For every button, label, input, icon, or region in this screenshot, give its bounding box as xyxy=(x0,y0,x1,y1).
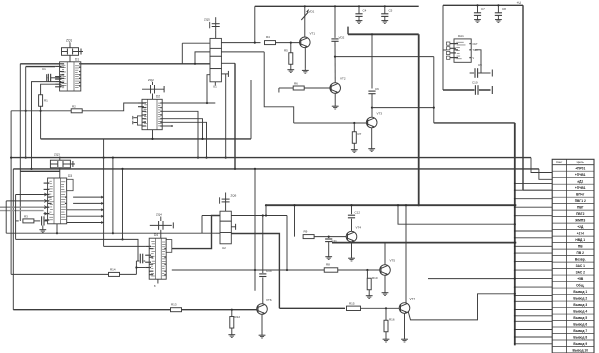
junction x255 base xyxy=(254,269,256,271)
wire y171.3 stub xyxy=(20,170,60,172)
wire stack pin r2 bracket xyxy=(221,51,264,53)
transistor VT2 xyxy=(330,83,341,94)
svg-text:Вывод 10: Вывод 10 xyxy=(572,348,588,352)
wire stack l1 riser xyxy=(181,43,183,64)
ground VT4 xyxy=(348,256,355,261)
transistor VT4 xyxy=(346,231,357,242)
ground R12 xyxy=(228,333,235,338)
stack U2 section 3 xyxy=(220,233,231,244)
wire R6 hook xyxy=(279,88,293,93)
wire R10 gnd xyxy=(368,290,370,294)
svg-text:D2: D2 xyxy=(156,95,160,99)
svg-text:ZQ6: ZQ6 xyxy=(231,194,237,198)
wire U2 left pin1 xyxy=(202,215,220,217)
svg-text:ZQ5: ZQ5 xyxy=(204,18,210,22)
resistor R6 xyxy=(293,86,304,90)
svg-text:+2 Н: +2 Н xyxy=(577,232,585,236)
resistor R10 xyxy=(367,278,371,290)
IC D4 xyxy=(145,238,166,279)
resistor R2 xyxy=(71,109,82,113)
junction R1 bus xyxy=(40,110,42,112)
resistor R9 xyxy=(303,235,314,239)
resistor R1 xyxy=(39,95,43,107)
svg-text:+5В: +5В xyxy=(577,277,584,281)
terminal y90 xyxy=(491,86,493,94)
vertical x112.9 xyxy=(112,157,114,235)
junction C8 xyxy=(497,4,499,6)
svg-text:Вывод 9: Вывод 9 xyxy=(573,342,587,346)
wire VT4 emitter xyxy=(351,242,353,256)
svg-text:ZQ3: ZQ3 xyxy=(54,153,60,157)
svg-text:Вывод 1: Вывод 1 xyxy=(573,290,587,294)
crystal ZQ6 xyxy=(220,193,230,212)
wire stack bottom stub xyxy=(214,82,216,86)
svg-text:ВПчт: ВПчт xyxy=(576,193,585,197)
wire x255 riser xyxy=(254,169,256,291)
svg-text:+ПР01: +ПР01 xyxy=(575,167,585,171)
svg-text:C14: C14 xyxy=(266,269,272,273)
junction base divider xyxy=(290,42,292,44)
svg-text:VT2: VT2 xyxy=(340,77,346,81)
wire R12 top xyxy=(231,310,233,317)
capacitor C1 xyxy=(47,74,60,82)
svg-text:+U: +U xyxy=(517,1,522,5)
ground VT5 xyxy=(382,291,389,296)
wire bus C left drop xyxy=(12,169,14,310)
capacitor C13 xyxy=(136,254,145,264)
wire bold y308.3 xyxy=(279,307,345,309)
wire D4 in y267.5 xyxy=(136,267,145,269)
wire right block left rail xyxy=(442,5,444,90)
junction rail D xyxy=(418,204,420,206)
wire stack pin r1 to R4 xyxy=(221,42,260,44)
svg-text:R3: R3 xyxy=(24,214,28,218)
svg-text:C12: C12 xyxy=(355,211,361,215)
IC DA1 xyxy=(450,39,471,62)
wire DA1 tun to C9 xyxy=(475,50,481,68)
svg-text:ZQ1: ZQ1 xyxy=(66,39,72,43)
junction x255 top xyxy=(254,168,256,170)
capacitor C7 xyxy=(474,5,481,22)
ground R10 xyxy=(366,294,373,299)
vertical x225.7 xyxy=(225,74,227,159)
svg-text:+2Д: +2Д xyxy=(577,225,584,229)
svg-text:D3: D3 xyxy=(68,174,72,178)
svg-text:+ПЧВ1: +ПЧВ1 xyxy=(575,186,586,190)
stack U1 section 2 xyxy=(210,48,221,56)
capacitor C8 xyxy=(495,5,502,22)
svg-text:R9: R9 xyxy=(304,230,308,234)
wire ZQ1 stem to D1 xyxy=(69,55,71,62)
junction l4 y103 xyxy=(206,102,208,104)
svg-text:OUT: OUT xyxy=(473,43,479,46)
wire bus B y157.6 xyxy=(11,157,531,159)
junction C6 top xyxy=(371,33,373,35)
wire x294.5 drop xyxy=(294,205,296,236)
corner x103.6 y246.4 xyxy=(103,245,105,247)
svg-text:C10: C10 xyxy=(472,81,478,85)
wire VT5 base feed xyxy=(172,269,338,271)
svg-text:Вывод 4: Вывод 4 xyxy=(573,309,587,313)
wire stack pin r3 bold xyxy=(221,63,235,169)
wire VT3 emitter xyxy=(371,128,373,147)
junction C6 out xyxy=(371,107,373,109)
svg-text:R10: R10 xyxy=(372,276,378,280)
svg-text:R16: R16 xyxy=(389,318,395,322)
capacitor C2 xyxy=(41,216,48,225)
resistor R4 xyxy=(265,41,276,45)
wire R16 top xyxy=(385,308,387,320)
wire VT5 collector xyxy=(384,243,386,265)
svg-text:Вывод 2: Вывод 2 xyxy=(573,296,587,300)
wire bus E y242.6 xyxy=(332,242,516,244)
transistor VT6 xyxy=(257,304,268,315)
wire stack pin l1 xyxy=(182,42,210,44)
wire R10 top xyxy=(366,270,368,278)
wire top supply rail xyxy=(255,5,419,7)
wire D1 input xyxy=(26,66,55,68)
stack U1 section 4 xyxy=(210,69,221,82)
IC D2 internal text xyxy=(144,103,162,127)
junction R12 tap xyxy=(231,309,233,311)
resistor R14 xyxy=(109,272,120,276)
wire D1 left vert xyxy=(25,67,27,159)
wire y246.4 to D4 xyxy=(104,245,146,247)
wire y107.6 to right xyxy=(372,107,435,109)
wire U2 left pin1 drop xyxy=(201,216,203,234)
ground C2 xyxy=(39,228,46,233)
wire D1 pin to R1 xyxy=(41,84,56,95)
IC D4 internal text xyxy=(151,241,166,276)
IC D1 xyxy=(55,62,81,91)
svg-text:C4: C4 xyxy=(363,9,367,13)
junction VT6 riser xyxy=(262,214,264,216)
wire R8 to VT5 xyxy=(338,269,380,271)
svg-text:DA1: DA1 xyxy=(458,34,464,38)
junction R16 xyxy=(385,307,387,309)
svg-text:R6: R6 xyxy=(294,82,298,86)
junction C12 bus D xyxy=(350,204,352,206)
svg-text:C9: C9 xyxy=(478,63,482,67)
wire ZQ3 stem xyxy=(59,168,61,178)
wire bus B tap xyxy=(531,158,552,173)
resistor R12 xyxy=(230,317,234,329)
capacitor C12 xyxy=(348,205,355,219)
wire D4 bottom stub xyxy=(157,279,159,283)
svg-text:ЗАС 1: ЗАС 1 xyxy=(576,264,586,268)
wire D2 bottom stub xyxy=(152,130,154,139)
transistor VT1 xyxy=(300,37,311,48)
resistor R13 xyxy=(171,308,182,312)
wire y274.4 xyxy=(11,273,136,275)
wire bus B left drop xyxy=(10,111,12,275)
svg-text:Вывод 7: Вывод 7 xyxy=(573,329,587,333)
svg-text:C8: C8 xyxy=(502,7,506,11)
wire U2 right pin2 xyxy=(231,224,235,230)
svg-text:VD2: VD2 xyxy=(339,36,345,40)
wire bracket drop x264.2 xyxy=(264,52,294,123)
junction bus C rail xyxy=(515,168,517,170)
resistor R5 xyxy=(289,53,293,65)
IC DA1 pin ladder xyxy=(443,42,450,59)
wire y233.2 xyxy=(6,232,216,234)
crystal ZQ5 xyxy=(210,17,220,38)
wire VT4 collector xyxy=(351,218,353,232)
junction x294.5 bus D xyxy=(293,204,295,206)
wire stack pin r4 xyxy=(221,71,228,77)
capacitor C10 xyxy=(475,85,479,95)
junction R10 xyxy=(366,269,368,271)
svg-text:±Д1: ±Д1 xyxy=(577,180,583,184)
svg-text:НВД 1: НВД 1 xyxy=(575,238,585,242)
svg-text:VD1: VD1 xyxy=(309,10,315,14)
svg-text:ЖМПЗ: ЖМПЗ xyxy=(574,219,585,223)
wire D3 bottom stub xyxy=(56,224,58,233)
crystal ZQ4 xyxy=(150,217,174,230)
svg-text:Общ.: Общ. xyxy=(576,283,584,287)
wire D3 in5 xyxy=(16,220,19,222)
wire R4 to VT1 xyxy=(276,42,300,44)
wire ZQ4 stem xyxy=(160,230,162,238)
svg-text:R4: R4 xyxy=(266,35,270,39)
svg-text:ПВГ1 2: ПВГ1 2 xyxy=(575,199,586,203)
wire D2 pin risers xyxy=(162,119,207,159)
wire y90 feed xyxy=(443,89,491,91)
svg-text:VT1: VT1 xyxy=(310,32,316,36)
wire riser x287 xyxy=(286,216,288,271)
crystal ZQ1 xyxy=(62,43,84,56)
wire R12 gnd xyxy=(231,328,233,333)
wire R3 to C2 xyxy=(34,220,40,222)
junction bus B rail xyxy=(515,157,517,159)
wire connector pin stubs xyxy=(514,183,552,345)
svg-text:D4: D4 xyxy=(154,233,158,237)
junction cap C4 xyxy=(358,5,360,7)
ground VT3 xyxy=(368,147,375,152)
wire D3 in4 xyxy=(0,210,44,212)
wire rail x523 xyxy=(522,5,524,190)
ground VT2 xyxy=(332,104,339,109)
junction y224.2 xyxy=(514,223,516,225)
wire bus C tap xyxy=(539,169,552,179)
wire bold rail x418.7 xyxy=(418,34,420,205)
ground VT6 xyxy=(259,333,266,338)
wire R15 to VT7 xyxy=(361,307,400,309)
wire D2 pin y111 riser xyxy=(162,111,199,158)
wire U2 right pin1 xyxy=(231,215,287,217)
svg-text:R5: R5 xyxy=(284,49,288,53)
wire VT5 emitter xyxy=(384,275,386,290)
wire y239.4 xyxy=(16,239,138,261)
ground R5 xyxy=(287,68,294,73)
wire bus y138.9 right corner xyxy=(250,80,252,139)
svg-text:R13: R13 xyxy=(171,303,177,307)
junction rail C3 xyxy=(334,5,336,7)
resistor R7 xyxy=(352,132,356,144)
wire C6 chain xyxy=(371,34,373,88)
svg-text:D1: D1 xyxy=(75,58,79,62)
svg-text:Возвр.: Возвр. xyxy=(575,257,586,261)
svg-text:ПВГ: ПВГ xyxy=(577,206,584,210)
svg-text:R15: R15 xyxy=(349,301,355,305)
junction y278.6 xyxy=(514,278,516,280)
crystal ZQ2 xyxy=(142,82,164,94)
junction D3 bottom xyxy=(56,232,58,234)
vertical x15.6 xyxy=(15,195,17,240)
wire top-right supply xyxy=(443,4,523,6)
wire rail x523 stub xyxy=(523,189,552,191)
junction stack bus C xyxy=(234,168,236,170)
ground VT1 xyxy=(302,68,309,73)
svg-text:VT6: VT6 xyxy=(266,298,272,302)
wire D2 out long xyxy=(162,102,215,104)
wire VT1 collector xyxy=(304,22,306,37)
wire R9 to VT4 xyxy=(314,236,346,238)
wire bottom bus y309.7 xyxy=(13,309,256,311)
wire D3 in3 xyxy=(0,206,44,208)
svg-text:Вывод 8: Вывод 8 xyxy=(573,335,587,339)
capacitor C4 xyxy=(355,6,362,23)
svg-text:C1: C1 xyxy=(42,67,46,71)
IC D3 internal text xyxy=(49,181,66,220)
diode VD1 xyxy=(301,6,309,22)
wire U2 left pin3 xyxy=(216,232,220,234)
resistor R16 xyxy=(384,320,388,332)
wire divider xyxy=(290,43,292,53)
transistor VT5 xyxy=(380,265,391,276)
wire stack pin l2 xyxy=(195,52,210,64)
svg-text:+ПЧВ1: +ПЧВ1 xyxy=(575,173,586,177)
junction VT7 out rail xyxy=(514,293,516,295)
wire R1 to bus xyxy=(40,106,42,139)
wire VT7 collector riser xyxy=(405,205,407,303)
IC DA1 internal text xyxy=(456,42,465,59)
junction x136.4 xyxy=(135,266,137,268)
IC D2 sub-box xyxy=(133,116,142,125)
IC D3 sub-box xyxy=(67,179,73,190)
wire riser x266 to bus D xyxy=(265,205,267,215)
crystal ZQ3 xyxy=(50,157,75,168)
wire y224.2 xyxy=(398,205,515,224)
wire bus A left corner xyxy=(19,64,21,221)
wire VT6 emitter xyxy=(261,314,263,333)
svg-text:Вывод 6: Вывод 6 xyxy=(573,322,587,326)
resistor R15 xyxy=(347,306,361,310)
wire D3 in2 xyxy=(6,200,43,202)
junction bus D rail xyxy=(514,204,516,206)
wire D4 out bold to U2 xyxy=(172,216,220,249)
transistor VT3 xyxy=(366,117,377,128)
wire y110.8 xyxy=(11,110,120,112)
IC D2 xyxy=(138,99,162,129)
junction C11 base xyxy=(328,236,330,238)
svg-text:R1: R1 xyxy=(44,99,48,103)
wire bus D y205.2 xyxy=(266,204,516,206)
svg-text:Цепь: Цепь xyxy=(577,160,585,164)
wire corner x434 xyxy=(434,122,515,124)
IC D1 internal text xyxy=(61,65,79,88)
svg-text:Конт: Конт xyxy=(556,160,563,164)
wire D3 outputs to rail xyxy=(67,196,104,224)
wire ZQ2 stem xyxy=(152,94,154,100)
vertical rail x103.6 xyxy=(103,139,105,247)
svg-text:VT5: VT5 xyxy=(390,259,396,263)
junction C7 xyxy=(476,4,478,6)
svg-text:R14: R14 xyxy=(110,268,116,272)
wire D3 in1 xyxy=(16,194,44,196)
wire bus y138.9 xyxy=(41,138,251,140)
wire rail x514-516 bold xyxy=(514,123,516,346)
svg-text:VT3: VT3 xyxy=(377,112,383,116)
stack U1 section 3 xyxy=(210,56,221,68)
wire VT2 emitter xyxy=(334,93,336,104)
wire r1 riser to top xyxy=(254,6,256,43)
junction l2 busA xyxy=(194,63,196,65)
transistor VT7 xyxy=(399,303,410,314)
svg-text:U2: U2 xyxy=(222,246,226,250)
junction bus B x104 xyxy=(103,157,105,159)
svg-text:ЗАС 2: ЗАС 2 xyxy=(576,270,586,274)
svg-text:ПВ 2: ПВ 2 xyxy=(577,251,585,255)
junction x287 base xyxy=(286,269,288,271)
svg-text:ПВ: ПВ xyxy=(578,245,583,249)
svg-text:C5: C5 xyxy=(389,9,393,13)
wire R6 to VT2 xyxy=(304,87,330,89)
arrows D3 inputs xyxy=(44,193,47,215)
IC D4 sub-box xyxy=(166,240,172,253)
junction U2 bus D xyxy=(265,204,267,206)
ground VT7 xyxy=(401,337,408,342)
wire D1 pin drop x31.5 xyxy=(30,82,55,170)
svg-text:R8: R8 xyxy=(326,263,330,267)
wire C2 gnd xyxy=(42,226,44,228)
stack U1 section 1 xyxy=(210,38,221,48)
connector X1 table xyxy=(552,159,594,353)
junction bus E rail xyxy=(514,242,516,244)
svg-text:ZQ4: ZQ4 xyxy=(156,213,162,217)
wire R2 riser to D2 xyxy=(120,103,142,111)
wire bold y34 xyxy=(348,27,419,35)
wire R16 gnd xyxy=(385,332,387,337)
junction VT7 bus D xyxy=(405,204,407,206)
wire VT7 emitter xyxy=(404,313,406,337)
wire VT3 base xyxy=(294,122,367,124)
junction y224.2 top xyxy=(397,204,399,206)
svg-text:R2: R2 xyxy=(72,105,76,109)
ground R7 xyxy=(351,148,358,153)
capacitor C11 xyxy=(325,237,332,260)
svg-text:ПВГ2: ПВГ2 xyxy=(576,212,585,216)
junction R7 base xyxy=(353,122,355,124)
wire stack pin l4 riser xyxy=(207,75,210,103)
vertical x6.2 xyxy=(5,201,7,233)
svg-text:VT7: VT7 xyxy=(410,297,416,301)
wire x136.4 riser xyxy=(135,261,137,274)
wire VT1 emitter xyxy=(304,47,306,68)
ground R16 xyxy=(383,337,390,342)
capacitor C6 xyxy=(368,90,375,117)
wire VT7 out xyxy=(408,294,515,320)
wire y278.6 xyxy=(428,278,515,280)
junction VD1 rail xyxy=(304,5,306,7)
vertical x122.5 xyxy=(121,168,123,241)
wire bus A y63.8 xyxy=(20,63,210,65)
stack U2 section 1 xyxy=(220,211,231,221)
svg-text:Вывод 5: Вывод 5 xyxy=(573,316,587,320)
svg-text:ZQ2: ZQ2 xyxy=(148,78,154,82)
wire R7 top xyxy=(353,123,355,132)
svg-text:C7: C7 xyxy=(481,7,485,11)
